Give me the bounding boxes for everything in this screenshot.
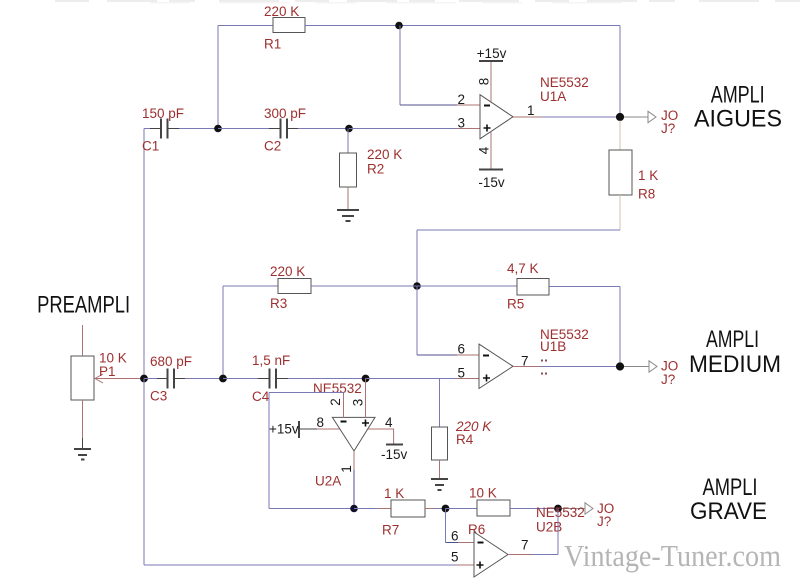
pin stub: U2A pin3: [365, 379, 367, 418]
node A junction dot: [395, 22, 403, 30]
svg-text:3: 3: [457, 116, 465, 131]
wire: C4 to node H: [288, 378, 366, 380]
wire: pin6 horizontal U2B: [446, 542, 459, 544]
svg-text:C2: C2: [264, 139, 281, 154]
wire: vertical x417 down to node E: [416, 230, 418, 286]
svg-text:7: 7: [521, 538, 529, 553]
svg-text:4: 4: [477, 146, 492, 154]
pin stub: U1A pin3: [457, 128, 480, 130]
wire: up to node L: [557, 509, 559, 555]
svg-text:6: 6: [457, 342, 465, 357]
svg-text:1,5 nF: 1,5 nF: [252, 353, 290, 368]
pin stub: U1B output pin7: [513, 366, 540, 368]
svg-text:300 pF: 300 pF: [264, 106, 306, 121]
pin stub: U1A V-: [490, 132, 492, 170]
wire: node E down to pin6 corner: [416, 286, 418, 355]
capacitor C3: [157, 369, 185, 389]
U2B minus sign: [478, 542, 484, 544]
svg-text:AMPLI: AMPLI: [706, 326, 759, 353]
pin stub: U2B pin6: [458, 542, 474, 544]
pin stub: P1 bottom: [82, 400, 84, 438]
node H junction dot: [362, 375, 370, 383]
wire: C1 left lead row: [144, 128, 150, 130]
resistor R2: [340, 153, 357, 187]
pin stub: U1B pin5: [457, 378, 479, 380]
svg-text:C3: C3: [150, 389, 167, 404]
svg-text:U1A: U1A: [540, 89, 566, 104]
wire: R5 right corner: [549, 286, 620, 288]
svg-text:U1B: U1B: [540, 339, 566, 354]
svg-text:R4: R4: [456, 432, 474, 447]
wire: pin2 horizontal: [400, 104, 457, 106]
svg-text:1 K: 1 K: [384, 486, 404, 501]
resistor R7: [391, 500, 425, 517]
svg-text:R5: R5: [507, 297, 524, 312]
wire: right vertical down to U1A output node: [619, 26, 621, 118]
svg-text:J?: J?: [661, 372, 675, 387]
svg-text:NE5532: NE5532: [540, 75, 589, 90]
wire: node K to R6: [446, 508, 478, 510]
wire: R1 row left segment: [218, 25, 273, 27]
op-amp U2B: [474, 532, 508, 577]
wire: R7 to node K: [434, 508, 446, 510]
capacitor C4: [258, 369, 288, 389]
resistor R1: [273, 18, 305, 33]
svg-text:220 K: 220 K: [367, 147, 402, 162]
wire: C2 to node C: [298, 128, 349, 130]
capacitor C1: [150, 119, 179, 139]
svg-text:220 K: 220 K: [264, 4, 299, 19]
svg-text:3: 3: [351, 399, 366, 407]
capacitor C2: [269, 119, 298, 139]
node J junction dot: [350, 505, 358, 513]
wire: node F down left rail: [143, 379, 145, 566]
svg-text:NE5532: NE5532: [536, 505, 585, 520]
pin stub: U1A pin2: [457, 104, 480, 106]
wire: node E to R5: [417, 285, 517, 287]
svg-text:+15v: +15v: [269, 422, 299, 437]
svg-text:1: 1: [527, 103, 535, 118]
svg-text:P1: P1: [99, 364, 116, 379]
+15v supply bar (U1A): [479, 60, 503, 62]
wire: C1 to node B: [179, 128, 218, 130]
connector arrow JO medium: [649, 361, 657, 372]
wire: R6 to node L: [510, 508, 558, 510]
pin stub: P1 top: [82, 325, 84, 356]
svg-text:R3: R3: [270, 296, 287, 311]
wire: R3 right to node E: [311, 285, 417, 287]
wire: C1 row left corner vertical x143: [143, 129, 145, 379]
wire: node D down to R8 (tan): [619, 121, 621, 151]
svg-text:6: 6: [451, 529, 459, 544]
svg-text:8: 8: [316, 415, 324, 430]
svg-text:5: 5: [457, 366, 465, 381]
svg-text:220 K: 220 K: [270, 264, 305, 279]
pin stub: U2A output pin1: [353, 451, 355, 470]
wire: pin6 horizontal U1B: [417, 354, 457, 356]
svg-text:2: 2: [328, 398, 343, 406]
wire: U1B output to node I: [540, 366, 620, 368]
connector lead JO aigues: [624, 116, 648, 118]
svg-text:Vintage-Tuner.com: Vintage-Tuner.com: [564, 538, 781, 573]
wire: R3 row left vertical x223: [222, 286, 224, 379]
wire: node J to R7: [354, 508, 378, 510]
svg-text:J?: J?: [597, 514, 611, 529]
wire: R1 right to node A: [305, 25, 399, 27]
pin stub: U1A V+: [490, 62, 492, 103]
svg-text:-15v: -15v: [478, 175, 505, 190]
wire: node B to C2: [218, 128, 269, 130]
node K junction dot: [442, 505, 450, 513]
wire: down to U1B output node: [619, 287, 621, 367]
connector lead JO grave: [562, 508, 585, 510]
potentiometer P1: [71, 356, 94, 400]
U1A plus sign: [484, 125, 491, 132]
ground (below R4): [431, 479, 448, 490]
U2A plus sign: [362, 420, 369, 427]
svg-text:PREAMPLI: PREAMPLI: [37, 292, 130, 319]
cropped text remnants top edge: [55, 1, 800, 3]
pin stub: U1B pin6: [457, 354, 479, 356]
pin stub: U2A pin4: [368, 429, 394, 444]
node I junction dot: [616, 362, 624, 370]
svg-text:2: 2: [457, 92, 465, 107]
svg-text:4,7 K: 4,7 K: [507, 261, 539, 276]
svg-text:AMPLI: AMPLI: [711, 82, 765, 109]
wire: node C down to R2: [347, 129, 349, 154]
resistor R4: [432, 427, 448, 460]
pin stub: U1A output pin1: [513, 116, 542, 118]
svg-text:R7: R7: [382, 523, 399, 538]
svg-text:NE5532: NE5532: [313, 381, 362, 396]
svg-text:150 pF: 150 pF: [142, 106, 184, 121]
wire: U2A pin2 feedback top: [269, 392, 344, 394]
svg-text:680 pF: 680 pF: [150, 354, 192, 369]
wire: node G to C4: [223, 378, 258, 380]
svg-text:4: 4: [385, 415, 393, 430]
U2A minus sign: [341, 421, 347, 423]
resistor R3: [278, 279, 311, 294]
resistor R8: [609, 150, 632, 195]
node C junction dot: [345, 125, 353, 133]
wire: R4 vertical from pin5 row: [439, 379, 441, 428]
node G junction dot: [219, 375, 227, 383]
pin stub: R4 bottom: [439, 460, 441, 478]
svg-text:1 K: 1 K: [638, 168, 658, 183]
wire: node C to U1A pin3: [349, 128, 457, 130]
wire: feedback bottom to node J: [269, 508, 354, 510]
P1 wiper arrow: [95, 374, 144, 383]
svg-text:C1: C1: [142, 139, 159, 154]
net dots .. marks: [541, 360, 547, 375]
svg-text:U2A: U2A: [315, 474, 341, 489]
op-amp U1B: [479, 344, 513, 388]
pin stub: R7 left: [378, 508, 391, 510]
svg-text:5: 5: [451, 550, 459, 565]
ground (below P1): [74, 449, 91, 460]
svg-text:R2: R2: [367, 162, 384, 177]
pin stub: R2 bottom: [347, 187, 349, 209]
wire: C3 to node G: [185, 378, 223, 380]
wire: U2A pin8 lead: [299, 428, 317, 430]
connector arrow JO aigues: [648, 111, 656, 122]
wire: U2B output right: [532, 554, 558, 556]
U1B minus sign: [483, 355, 489, 357]
svg-text:+15v: +15v: [477, 46, 507, 61]
wire: R3 left lead: [223, 285, 278, 287]
wire: top loop left vertical x218: [217, 26, 219, 129]
svg-text:1: 1: [339, 465, 354, 473]
pin stub: U2B output pin7: [508, 554, 532, 556]
wire: feedback row y230: [417, 229, 620, 231]
+15v bar (U2A): [298, 421, 300, 438]
-15v supply bar (U1A): [479, 169, 503, 171]
op-amp U1A: [480, 95, 513, 139]
svg-text:10 K: 10 K: [469, 486, 497, 501]
wire: P1 bottom black lead: [82, 438, 84, 448]
node F junction dot (wiper node): [140, 375, 148, 383]
svg-text:R1: R1: [264, 37, 281, 52]
wire: node F to C3: [144, 378, 157, 380]
node E junction dot: [413, 282, 421, 290]
svg-text:R8: R8: [638, 187, 655, 202]
svg-text:AMPLI: AMPLI: [703, 474, 758, 501]
node L junction dot: [554, 505, 562, 513]
svg-text:C4: C4: [252, 389, 270, 404]
svg-text:AIGUES: AIGUES: [694, 106, 782, 133]
connector lead JO medium: [624, 366, 649, 368]
pin stub: U2B pin5: [456, 564, 474, 566]
wire: node K down to U2B pin6: [445, 509, 447, 543]
svg-text:J?: J?: [661, 121, 675, 136]
resistor R6: [477, 500, 510, 516]
wire: feedback left vertical x269: [268, 393, 270, 509]
svg-text:8: 8: [477, 78, 492, 86]
ground (below R2): [337, 210, 359, 221]
wire: node H to U1B pin5: [366, 378, 457, 380]
wire: R8 bottom down (tan): [619, 195, 621, 230]
wire: U1A output to node D: [542, 116, 620, 118]
wire: pin1 down to node J: [353, 470, 355, 509]
wire: node A down to pin2 row: [399, 26, 401, 106]
U2B plus sign: [477, 562, 484, 569]
svg-text:GRAVE: GRAVE: [690, 498, 767, 525]
svg-text:-15v: -15v: [381, 447, 408, 462]
svg-text:MEDIUM: MEDIUM: [689, 351, 781, 378]
connector arrow JO grave: [585, 503, 593, 514]
op-amp U2A (points down): [332, 417, 375, 451]
wire: bottom rail to U2B pin5: [144, 564, 456, 566]
U1A minus sign: [484, 105, 490, 107]
wire: node A to top-right corner: [399, 25, 620, 27]
pin stub: U2A pin8: [317, 428, 340, 430]
-15v bar (U2A): [386, 444, 403, 446]
node B junction dot: [214, 125, 222, 133]
node D junction dot: [616, 113, 624, 121]
U1B plus sign: [483, 375, 490, 382]
pin stub: U2A pin2: [343, 393, 345, 418]
resistor R5: [517, 279, 549, 296]
pin stub: R7 right: [425, 508, 434, 510]
